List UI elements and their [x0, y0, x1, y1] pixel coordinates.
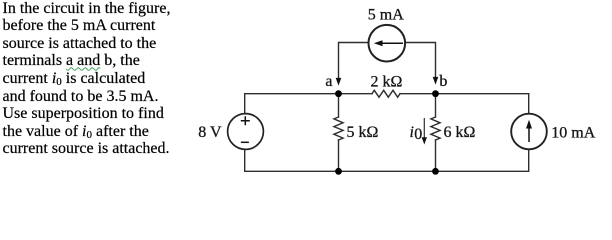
- svg-text:2 kΩ: 2 kΩ: [371, 74, 403, 91]
- svg-text:10 mA: 10 mA: [551, 125, 595, 142]
- svg-text:a: a: [325, 73, 332, 90]
- svg-text:5 kΩ: 5 kΩ: [347, 124, 379, 141]
- svg-text:0: 0: [414, 126, 422, 143]
- svg-text:i: i: [410, 124, 414, 141]
- svg-text:6 kΩ: 6 kΩ: [444, 124, 476, 141]
- svg-text:b: b: [439, 73, 447, 90]
- svg-text:5 mA: 5 mA: [368, 6, 404, 23]
- svg-text:8 V: 8 V: [198, 124, 222, 141]
